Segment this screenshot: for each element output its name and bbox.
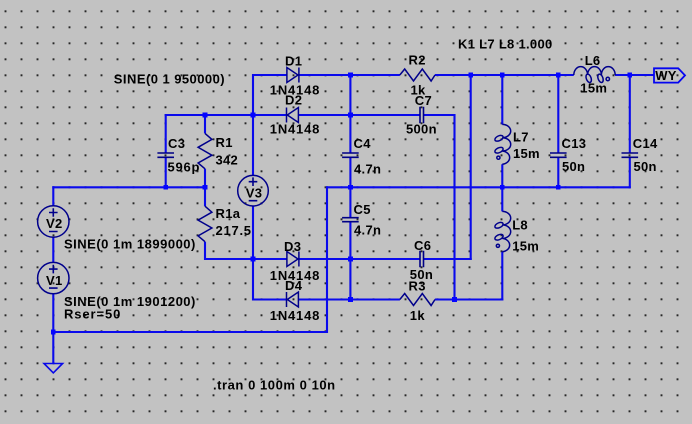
svg-text:K1 L7 L8 1.000: K1 L7 L8 1.000	[458, 36, 553, 51]
svg-text:WY: WY	[655, 68, 677, 83]
svg-text:L8: L8	[512, 217, 528, 232]
svg-text:15m: 15m	[580, 80, 607, 95]
svg-text:R3: R3	[409, 278, 426, 293]
svg-text:C13: C13	[562, 136, 587, 151]
svg-text:D3: D3	[284, 239, 301, 254]
svg-text:596p: 596p	[168, 159, 201, 174]
svg-text:V2: V2	[46, 216, 63, 231]
svg-text:500n: 500n	[406, 122, 437, 137]
svg-text:C7: C7	[415, 93, 432, 108]
svg-text:Rser=50: Rser=50	[64, 307, 121, 322]
svg-text:V1: V1	[46, 273, 63, 288]
svg-text:217.5: 217.5	[216, 223, 252, 238]
svg-text:D1: D1	[285, 54, 302, 69]
svg-text:15m: 15m	[513, 146, 540, 161]
svg-text:15m: 15m	[512, 239, 539, 254]
svg-text:1N4148: 1N4148	[270, 308, 320, 323]
svg-text:R1: R1	[216, 135, 233, 150]
svg-text:C5: C5	[354, 202, 371, 217]
svg-text:V3: V3	[246, 185, 263, 200]
svg-text:C14: C14	[633, 136, 658, 151]
svg-text:C3: C3	[168, 136, 185, 151]
svg-text:4.7n: 4.7n	[354, 162, 381, 177]
svg-text:4.7n: 4.7n	[354, 223, 381, 238]
svg-text:C6: C6	[414, 238, 431, 253]
svg-text:C4: C4	[354, 136, 372, 151]
svg-text:D2: D2	[285, 93, 302, 108]
svg-text:50n: 50n	[562, 159, 585, 174]
svg-text:L7: L7	[513, 130, 529, 145]
svg-text:.tran 0 100m 0 10n: .tran 0 100m 0 10n	[213, 378, 336, 393]
svg-text:L6: L6	[585, 53, 601, 68]
svg-text:D4: D4	[285, 278, 303, 293]
svg-text:1N4148: 1N4148	[270, 122, 320, 137]
svg-text:R1a: R1a	[216, 206, 241, 221]
svg-text:1k: 1k	[410, 308, 426, 323]
svg-text:SINE(0 1m 1899000): SINE(0 1m 1899000)	[64, 237, 196, 252]
svg-text:R2: R2	[409, 52, 426, 67]
svg-text:50n: 50n	[634, 159, 657, 174]
svg-text:342: 342	[216, 152, 239, 167]
svg-text:SINE(0 1 950000): SINE(0 1 950000)	[114, 71, 225, 86]
